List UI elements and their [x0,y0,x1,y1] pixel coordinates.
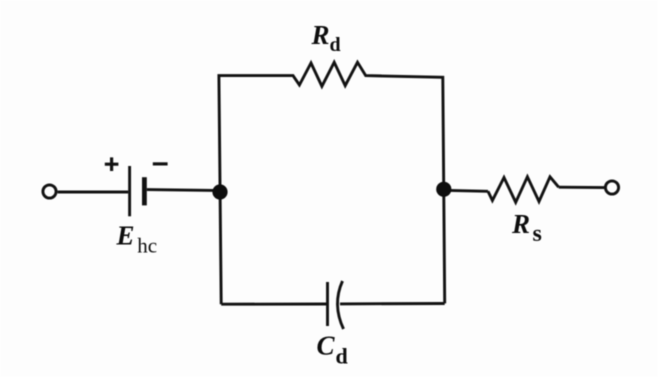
svg-text:hc: hc [137,233,157,257]
svg-text:C: C [317,331,336,361]
svg-text:d: d [330,34,341,56]
svg-text:R: R [311,20,330,50]
svg-text:d: d [336,344,348,369]
svg-text:s: s [533,221,542,247]
svg-text:R: R [511,209,530,239]
svg-text:E: E [116,220,135,250]
